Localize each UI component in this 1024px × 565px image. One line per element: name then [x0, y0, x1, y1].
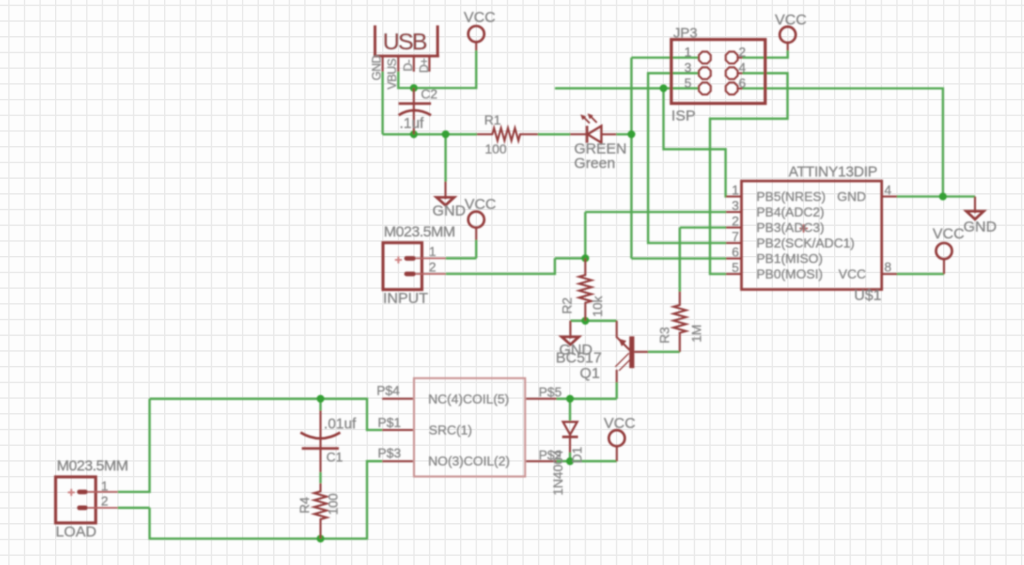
svg-text:2: 2	[429, 260, 436, 275]
svg-text:SRC(1): SRC(1)	[429, 423, 472, 438]
svg-text:PB1(MISO): PB1(MISO)	[756, 251, 822, 266]
svg-text:VCC: VCC	[464, 9, 496, 26]
svg-text:2: 2	[739, 45, 746, 60]
svg-text:.01uf: .01uf	[324, 416, 357, 432]
svg-text:5: 5	[732, 260, 739, 275]
svg-text:VCC: VCC	[604, 415, 636, 432]
svg-text:JP3: JP3	[673, 25, 697, 41]
svg-text:U$1: U$1	[854, 287, 882, 304]
svg-text:Q1: Q1	[580, 365, 600, 382]
svg-text:VCC: VCC	[464, 196, 496, 213]
svg-text:PB5(NRES): PB5(NRES)	[756, 189, 825, 204]
svg-text:P$1: P$1	[378, 415, 401, 430]
svg-text:6: 6	[739, 76, 746, 91]
svg-text:VBUS: VBUS	[385, 58, 399, 89]
svg-text:D-: D-	[401, 59, 415, 71]
svg-text:M023.5MM: M023.5MM	[57, 457, 128, 474]
svg-text:4: 4	[884, 183, 891, 198]
svg-text:100: 100	[326, 493, 341, 515]
svg-text:VCC: VCC	[933, 225, 965, 242]
svg-text:1: 1	[684, 45, 691, 60]
svg-text:ATTINY13DIP: ATTINY13DIP	[789, 165, 878, 181]
svg-text:GND: GND	[369, 55, 383, 81]
svg-text:GND: GND	[963, 219, 997, 236]
svg-text:R3: R3	[657, 327, 672, 344]
svg-text:.1uf: .1uf	[400, 116, 425, 132]
svg-text:100: 100	[485, 142, 507, 157]
svg-text:1: 1	[732, 183, 739, 198]
svg-text:4: 4	[739, 60, 746, 75]
svg-text:10k: 10k	[590, 296, 605, 317]
svg-text:5: 5	[684, 76, 691, 91]
svg-text:8: 8	[884, 259, 891, 274]
svg-text:R4: R4	[297, 497, 312, 514]
svg-text:1N4004: 1N4004	[550, 450, 565, 496]
svg-text:C2: C2	[421, 86, 438, 101]
svg-text:3: 3	[732, 198, 739, 213]
svg-text:R2: R2	[560, 297, 575, 314]
svg-text:ISP: ISP	[671, 107, 695, 124]
svg-text:NC(4)COIL(5): NC(4)COIL(5)	[428, 392, 509, 407]
svg-text:R1: R1	[484, 112, 501, 127]
svg-text:P$3: P$3	[378, 446, 401, 461]
svg-text:PB3(ADC3): PB3(ADC3)	[756, 220, 824, 235]
svg-text:LOAD: LOAD	[56, 524, 97, 541]
svg-text:VCC: VCC	[839, 267, 866, 282]
svg-text:6: 6	[732, 245, 739, 260]
svg-text:Green: Green	[574, 156, 615, 172]
svg-text:C1: C1	[326, 450, 343, 465]
svg-text:GND: GND	[432, 202, 466, 219]
svg-text:GREEN: GREEN	[574, 142, 627, 158]
svg-text:VCC: VCC	[775, 12, 807, 29]
svg-text:PB0(MOSI): PB0(MOSI)	[756, 267, 822, 282]
svg-text:USB: USB	[383, 29, 427, 55]
svg-text:7: 7	[732, 229, 739, 244]
svg-text:D+: D+	[417, 58, 431, 73]
svg-text:GND: GND	[837, 189, 866, 204]
svg-text:D1: D1	[570, 447, 585, 464]
svg-text:1: 1	[429, 244, 436, 259]
svg-text:NO(3)COIL(2): NO(3)COIL(2)	[428, 454, 510, 469]
svg-text:M023.5MM: M023.5MM	[384, 224, 455, 241]
svg-text:3: 3	[684, 60, 691, 75]
svg-text:1M: 1M	[689, 324, 704, 342]
svg-text:P$4: P$4	[377, 383, 400, 398]
svg-text:2: 2	[732, 214, 739, 229]
svg-text:INPUT: INPUT	[383, 290, 428, 307]
svg-text:1: 1	[101, 479, 108, 494]
svg-text:PB4(ADC2): PB4(ADC2)	[756, 205, 824, 220]
svg-text:PB2(SCK/ADC1): PB2(SCK/ADC1)	[756, 236, 854, 251]
svg-text:P$5: P$5	[539, 384, 562, 399]
svg-text:2: 2	[101, 494, 108, 509]
